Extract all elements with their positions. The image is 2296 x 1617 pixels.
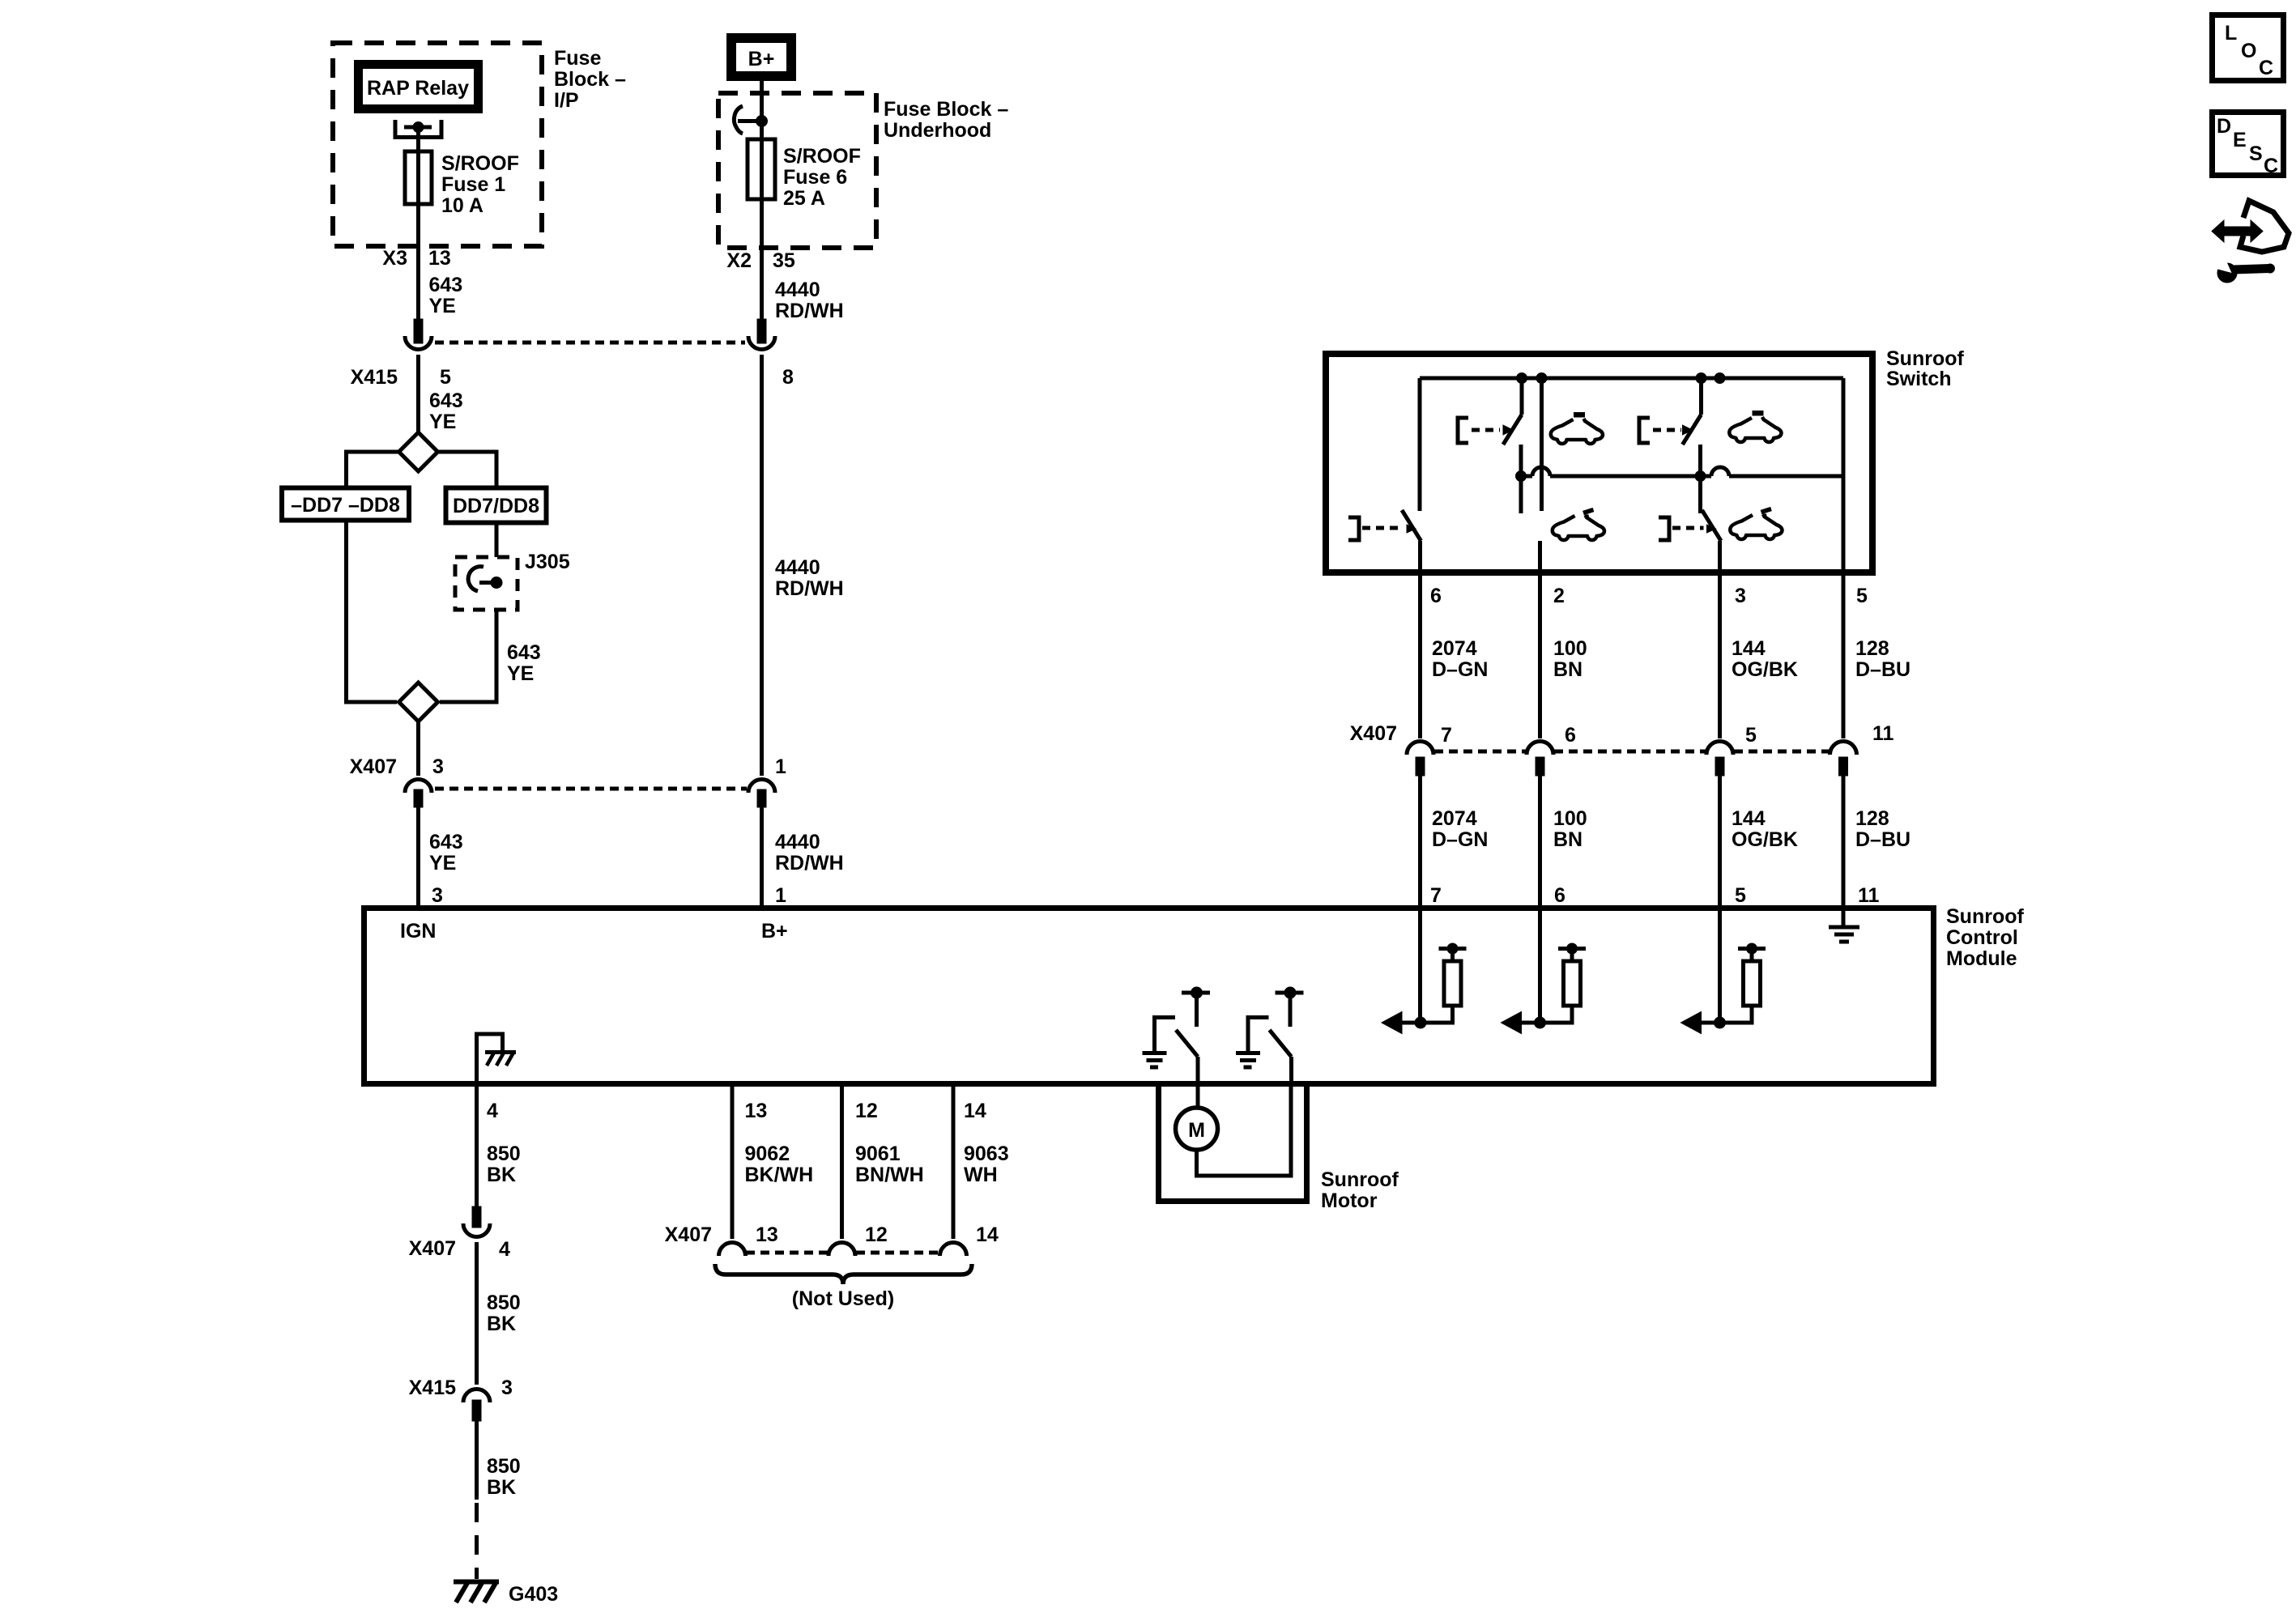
switch pin 2 lower wire xyxy=(1538,541,1542,738)
svg-text:X2: X2 xyxy=(726,249,752,272)
svg-text:128: 128 xyxy=(1855,637,1889,660)
wire fuse 1 to connector X415 pin 5 xyxy=(416,204,420,319)
svg-text:850: 850 xyxy=(487,1455,521,1478)
svg-text:144: 144 xyxy=(1732,637,1766,660)
wire relay K1 to motor xyxy=(1196,1057,1200,1087)
relay contact K1 movable blade xyxy=(1176,1030,1198,1057)
svg-text:J305: J305 xyxy=(525,551,570,573)
svg-text:13: 13 xyxy=(745,1100,768,1122)
svg-text:O: O xyxy=(2241,40,2256,62)
connector X407 cavity 4 xyxy=(463,1223,490,1237)
relay contact K2 power T-bar xyxy=(1276,991,1304,995)
male pin terminal X415-5 xyxy=(414,319,423,343)
svg-text:643: 643 xyxy=(429,831,463,853)
svg-text:9062: 9062 xyxy=(745,1143,790,1165)
module input network pin 7 junction+arrow xyxy=(1415,1017,1426,1028)
svg-text:Fuse 6: Fuse 6 xyxy=(783,166,847,189)
svg-text:Underhood: Underhood xyxy=(884,119,991,142)
wire X407-3 to module IGN xyxy=(416,807,420,905)
svg-text:IGN: IGN xyxy=(400,920,436,943)
relay contact K2 movable blade xyxy=(1270,1030,1292,1057)
wire resistor pin 5 to junction xyxy=(1720,1006,1753,1023)
resistor R pin 7 xyxy=(1444,961,1461,1006)
splice J305 symbol xyxy=(468,567,483,591)
male pin terminal X407-3 xyxy=(414,789,423,807)
splice diamond upper xyxy=(399,432,438,471)
connector X407 cavity 7 xyxy=(1407,742,1433,755)
relay contact K1 fixed ground bracket xyxy=(1155,1018,1176,1052)
car icon open-slide right xyxy=(1729,417,1781,442)
connector X407 cavity 6 xyxy=(1527,742,1553,755)
svg-text:X407: X407 xyxy=(350,755,397,778)
svg-text:12: 12 xyxy=(855,1100,878,1122)
car icon vent left xyxy=(1553,515,1604,540)
icon panel outline xyxy=(2240,201,2289,252)
svg-text:643: 643 xyxy=(429,389,463,412)
svg-text:4: 4 xyxy=(499,1238,510,1261)
male pin terminal X415-3 xyxy=(472,1400,481,1421)
svg-text:BK/WH: BK/WH xyxy=(745,1164,814,1186)
svg-text:850: 850 xyxy=(487,1143,521,1165)
dashed connector line X407 xyxy=(435,787,747,791)
wire X407-5 to module xyxy=(1718,776,1722,1023)
svg-text:100: 100 xyxy=(1553,637,1587,660)
svg-text:X415: X415 xyxy=(409,1377,456,1399)
svg-text:BN: BN xyxy=(1553,828,1582,851)
wire relay K2 to motor xyxy=(1289,1057,1293,1087)
connector X415 cavity 5 xyxy=(405,336,432,350)
switch lower blade left xyxy=(1402,510,1421,541)
switch internal bus top line xyxy=(1420,377,1843,381)
svg-text:2: 2 xyxy=(1553,585,1565,607)
wire module pin 13 down xyxy=(731,1087,735,1239)
male pin terminal X407-4 xyxy=(472,1206,481,1228)
svg-text:11: 11 xyxy=(1872,722,1894,745)
connector X407 cavity 12 xyxy=(829,1243,855,1257)
dashed wire to ground xyxy=(475,1503,479,1579)
connector X407 cavity 5 xyxy=(1706,742,1733,755)
svg-text:D: D xyxy=(2217,115,2231,138)
svg-text:BK: BK xyxy=(487,1313,516,1335)
svg-text:Block –: Block – xyxy=(554,68,626,91)
wire fuse 6 to X415-8 xyxy=(760,199,764,319)
svg-text:9061: 9061 xyxy=(855,1143,901,1165)
svg-text:D–BU: D–BU xyxy=(1855,658,1910,681)
svg-text:B+: B+ xyxy=(748,48,775,70)
svg-text:X407: X407 xyxy=(1350,722,1397,745)
dashed connector line X407 switch row xyxy=(1434,750,1526,754)
icon double arrow xyxy=(2212,220,2263,242)
wire diamond to left branch xyxy=(347,452,399,486)
male pin terminal X407-1 xyxy=(757,789,766,807)
wire X407-1 to module B+ xyxy=(760,807,764,905)
svg-text:D–GN: D–GN xyxy=(1432,828,1488,851)
connector X407 cavity 1 xyxy=(748,780,775,793)
svg-text:14: 14 xyxy=(964,1100,986,1122)
power feed B+ box xyxy=(731,38,791,76)
svg-text:5: 5 xyxy=(1745,724,1757,747)
junction dots on bus xyxy=(1517,373,1527,384)
svg-text:RD/WH: RD/WH xyxy=(775,300,844,322)
wire module pin 14 down xyxy=(952,1087,956,1239)
wire X407-11 to module ground xyxy=(1842,776,1846,926)
svg-text:3: 3 xyxy=(501,1377,513,1399)
relay contact K2 fixed ground bracket xyxy=(1248,1018,1269,1052)
svg-text:D–BU: D–BU xyxy=(1855,828,1910,851)
fuse block Underhood dashed enclosure xyxy=(718,93,876,248)
svg-text:E: E xyxy=(2233,129,2247,151)
svg-text:OG/BK: OG/BK xyxy=(1732,658,1798,681)
wire lower diamond to X407-3 xyxy=(416,721,420,776)
svg-text:X407: X407 xyxy=(409,1237,456,1260)
fuse block I/P dashed enclosure xyxy=(333,43,542,246)
svg-text:643: 643 xyxy=(507,641,541,664)
svg-text:Fuse 1: Fuse 1 xyxy=(441,173,505,196)
svg-text:7: 7 xyxy=(1441,724,1452,747)
svg-text:D–GN: D–GN xyxy=(1432,658,1488,681)
svg-text:B+: B+ xyxy=(761,920,788,943)
internal supply T-bar pin 7 xyxy=(1439,947,1467,951)
svg-text:13: 13 xyxy=(756,1223,778,1246)
relay K RAP Relay box xyxy=(359,65,479,109)
svg-text:3: 3 xyxy=(1735,585,1746,607)
svg-text:100: 100 xyxy=(1553,807,1587,830)
icon box DESC xyxy=(2213,113,2284,176)
module U1 Sunroof Control Module box xyxy=(364,908,1934,1084)
wire resistor pin 6 to junction xyxy=(1540,1006,1573,1023)
svg-text:YE: YE xyxy=(507,662,534,685)
svg-text:BN/WH: BN/WH xyxy=(855,1164,924,1186)
svg-text:YE: YE xyxy=(429,411,456,433)
module input network pin 6 junction+arrow xyxy=(1535,1017,1546,1028)
fuse F6 S/ROOF Fuse 6 25A xyxy=(748,139,775,199)
brace not-used group xyxy=(715,1264,972,1284)
wire resistor pin 7 to junction xyxy=(1421,1006,1453,1023)
switch common line to pin5 with wire hops xyxy=(1521,474,1532,479)
wire J305 to lower diamond xyxy=(440,610,496,702)
svg-text:1: 1 xyxy=(775,884,786,907)
svg-text:3: 3 xyxy=(432,755,444,778)
wire left branch down xyxy=(347,523,398,703)
svg-text:4: 4 xyxy=(487,1100,498,1122)
svg-text:Sunroof: Sunroof xyxy=(1946,905,2024,928)
switch pin 3 lower wire xyxy=(1718,541,1722,738)
wire X415-8 to X407-1 xyxy=(760,355,764,776)
switch S1 Sunroof Switch box xyxy=(1326,354,1872,572)
switch actuator bracket E right xyxy=(1639,418,1650,443)
svg-text:–DD7 –DD8: –DD7 –DD8 xyxy=(291,494,400,517)
wire X407-4 to X415-3 xyxy=(475,1242,479,1385)
svg-text:Control: Control xyxy=(1946,926,2018,949)
svg-text:X415: X415 xyxy=(351,366,398,389)
icon box LOC xyxy=(2213,15,2284,81)
internal supply T-bar pin 6 xyxy=(1558,947,1586,951)
svg-text:RD/WH: RD/WH xyxy=(775,577,844,600)
svg-text:128: 128 xyxy=(1855,807,1889,830)
fuse F1 S/ROOF Fuse 1 10A xyxy=(405,151,432,204)
svg-text:DD7/DD8: DD7/DD8 xyxy=(453,495,539,517)
connector X407 cavity 14 xyxy=(940,1243,967,1257)
switch actuator dashed link left xyxy=(1362,526,1404,530)
switch upper blade left xyxy=(1503,415,1522,445)
switch internal left edge (pin 6 feed) xyxy=(1418,378,1422,511)
connector X407 cavity 3 xyxy=(405,780,432,793)
svg-text:X407: X407 xyxy=(665,1223,712,1246)
svg-text:5: 5 xyxy=(1735,884,1746,907)
switch mid stub right xyxy=(1698,445,1702,513)
svg-text:2074: 2074 xyxy=(1432,637,1477,660)
svg-text:5: 5 xyxy=(440,366,451,389)
wire RAP relay to fuse 1 xyxy=(416,127,420,151)
svg-text:YE: YE xyxy=(429,295,456,317)
wire motor loop xyxy=(1197,1087,1292,1176)
svg-text:X3: X3 xyxy=(382,247,407,270)
svg-text:RAP Relay: RAP Relay xyxy=(367,77,469,100)
svg-text:Sunroof: Sunroof xyxy=(1321,1168,1399,1191)
wire relay1 to motor xyxy=(1196,1087,1200,1108)
svg-text:S: S xyxy=(2249,143,2263,165)
switch actuator bracket E left xyxy=(1458,418,1468,443)
wire X415-5 to splice diamond xyxy=(416,355,420,434)
wire X415-3 down xyxy=(475,1421,479,1500)
switch lower blade right xyxy=(1702,510,1722,541)
car icon open-slide left xyxy=(1551,419,1603,444)
svg-text:L: L xyxy=(2225,22,2237,45)
wire diamond to right branch xyxy=(438,452,497,486)
svg-text:BN: BN xyxy=(1553,658,1582,681)
motor M1 circle xyxy=(1176,1108,1218,1150)
svg-text:Module: Module xyxy=(1946,947,2017,970)
wire B+ to breaker xyxy=(760,81,764,121)
svg-text:12: 12 xyxy=(865,1223,888,1246)
connector X415 cavity 8 xyxy=(748,336,775,350)
svg-text:BK: BK xyxy=(487,1476,516,1499)
wire breaker to fuse 6 xyxy=(760,121,764,140)
switch upper blade right xyxy=(1683,415,1702,445)
wire X407-6 to module xyxy=(1538,776,1542,1023)
svg-text:OG/BK: OG/BK xyxy=(1732,828,1798,851)
svg-text:(Not Used): (Not Used) xyxy=(792,1287,894,1310)
circuit breaker symbol xyxy=(734,106,743,134)
svg-text:4440: 4440 xyxy=(775,279,820,301)
svg-text:7: 7 xyxy=(1430,884,1442,907)
svg-text:I/P: I/P xyxy=(554,89,579,112)
svg-text:C: C xyxy=(2264,155,2278,177)
svg-text:3: 3 xyxy=(432,884,443,907)
relay contact K1 power T-bar xyxy=(1182,991,1210,995)
svg-text:14: 14 xyxy=(976,1223,999,1246)
svg-text:10 A: 10 A xyxy=(441,194,483,217)
svg-text:11: 11 xyxy=(1858,884,1880,907)
ground symbol relay K2 xyxy=(1236,1051,1260,1055)
svg-text:Switch: Switch xyxy=(1886,368,1952,390)
svg-text:4440: 4440 xyxy=(775,556,820,579)
svg-text:13: 13 xyxy=(428,247,451,270)
svg-text:6: 6 xyxy=(1554,884,1565,907)
switch pin 5 wire to connector xyxy=(1842,576,1846,738)
relay output pin bracket xyxy=(395,120,441,138)
dashed connector line X415 xyxy=(435,341,745,345)
module input network pin 5 junction+arrow xyxy=(1715,1017,1726,1028)
ground symbol module pin 11 xyxy=(1829,926,1859,930)
svg-text:M: M xyxy=(1188,1119,1205,1142)
svg-text:8: 8 xyxy=(782,366,794,389)
svg-text:6: 6 xyxy=(1565,724,1576,747)
svg-text:5: 5 xyxy=(1856,585,1868,607)
svg-text:2074: 2074 xyxy=(1432,807,1477,830)
svg-text:BK: BK xyxy=(487,1164,516,1186)
svg-text:4440: 4440 xyxy=(775,831,820,853)
splice J305 dashed box xyxy=(455,557,518,610)
male pin terminals X407 row xyxy=(1416,757,1425,776)
svg-text:144: 144 xyxy=(1732,807,1766,830)
svg-text:WH: WH xyxy=(964,1164,998,1186)
male pin terminal X415-8 xyxy=(757,319,766,343)
svg-text:G403: G403 xyxy=(509,1583,558,1606)
wire right branch to J305 xyxy=(495,526,499,558)
motor box Sunroof Motor xyxy=(1159,1087,1307,1202)
svg-text:S/ROOF: S/ROOF xyxy=(441,152,519,175)
svg-text:6: 6 xyxy=(1430,585,1442,607)
resistor R pin 5 xyxy=(1744,961,1761,1006)
switch actuator dashed link right xyxy=(1653,428,1681,432)
module internal ground (pin 4 path) xyxy=(477,1034,503,1087)
svg-text:C: C xyxy=(2259,57,2273,79)
svg-text:S/ROOF: S/ROOF xyxy=(783,145,861,168)
ground symbol relay K1 xyxy=(1143,1051,1167,1055)
switch actuator bracket ] left xyxy=(1348,517,1359,540)
switch upper contact stub right xyxy=(1699,378,1703,415)
svg-text:35: 35 xyxy=(773,249,795,272)
svg-text:RD/WH: RD/WH xyxy=(775,852,844,874)
connector X415 cavity 3 xyxy=(463,1389,490,1402)
svg-text:643: 643 xyxy=(429,274,463,296)
option box DD7/DD8 xyxy=(446,488,547,523)
dashed connector line X407 row xyxy=(746,1251,828,1255)
svg-text:Fuse: Fuse xyxy=(554,47,601,70)
internal supply T-bar pin 5 xyxy=(1738,947,1766,951)
switch pin 6 lower wire xyxy=(1418,541,1422,738)
svg-text:Motor: Motor xyxy=(1321,1189,1378,1212)
switch actuator dashed link left xyxy=(1472,428,1500,432)
svg-text:25 A: 25 A xyxy=(783,187,825,210)
car icon vent right xyxy=(1730,514,1782,539)
switch upper contact stub left xyxy=(1520,378,1524,415)
resistor R pin 6 xyxy=(1564,961,1581,1006)
wire module pin 4 down xyxy=(475,1087,479,1206)
switch internal right edge (pin 5 feed) xyxy=(1842,378,1846,576)
svg-text:9063: 9063 xyxy=(964,1143,1009,1165)
icon wrench xyxy=(2217,263,2237,283)
svg-text:1: 1 xyxy=(775,755,786,778)
option box -DD7 -DD8 xyxy=(282,488,409,521)
switch actuator dashed link right xyxy=(1672,526,1704,530)
svg-text:Fuse Block –: Fuse Block – xyxy=(884,98,1008,121)
wire module pin 12 down xyxy=(840,1087,844,1239)
svg-text:YE: YE xyxy=(429,852,456,874)
wire X407-7 to module xyxy=(1418,776,1422,1023)
connector X407 cavity 13 xyxy=(719,1243,746,1257)
switch pin 2 upper wire xyxy=(1540,378,1544,511)
splice diamond lower xyxy=(399,683,438,721)
svg-text:Sunroof: Sunroof xyxy=(1886,347,1964,370)
svg-text:850: 850 xyxy=(487,1291,521,1314)
switch actuator bracket ] right xyxy=(1659,517,1669,540)
connector X407 cavity 11 xyxy=(1830,742,1857,755)
switch mid stub left xyxy=(1519,445,1523,513)
ground G403 xyxy=(454,1580,499,1585)
